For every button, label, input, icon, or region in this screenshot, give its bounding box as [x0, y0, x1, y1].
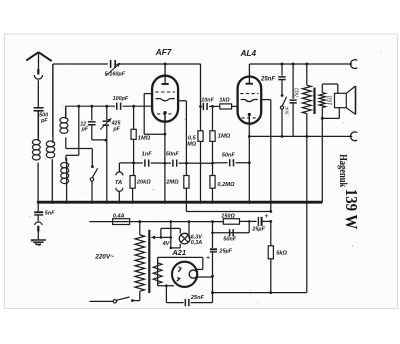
- antenna: [26, 52, 38, 60]
- svg-text:pF: pF: [81, 127, 89, 133]
- wire 25nF heater line: [165, 286, 167, 303]
- svg-text:+: +: [265, 213, 269, 220]
- AF7 grid dashes: [155, 91, 175, 93]
- svg-text:MΩ: MΩ: [187, 141, 197, 147]
- wire AL4 top cap: [248, 64, 250, 83]
- capacitor 50nF AF7: [165, 162, 171, 164]
- svg-text:5nF: 5nF: [45, 211, 55, 217]
- node TA ground: [118, 201, 121, 204]
- svg-text:A21: A21: [171, 248, 186, 257]
- wire 1k to AL4 grid: [232, 105, 238, 107]
- svg-text:Hagenuk: Hagenuk: [337, 154, 349, 187]
- scan noise specks: [136, 79, 137, 80]
- capacitor 5nF antenna: [34, 211, 43, 213]
- rectifier A21 loop left: [157, 257, 159, 285]
- coil L2: [46, 141, 54, 147]
- node antenna ground: [37, 201, 40, 204]
- coil L4: [61, 163, 69, 168]
- node lamp riser 1: [169, 220, 172, 223]
- node cathode ground: [163, 201, 166, 204]
- coil L3: [60, 118, 68, 123]
- svg-text:15Ω: 15Ω: [327, 96, 333, 106]
- svg-text:10nF: 10nF: [201, 98, 214, 104]
- resistor 1M AF7 grid: [131, 129, 136, 139]
- AF7 cathode pin: [164, 111, 167, 114]
- wire secondary bottom: [321, 108, 323, 119]
- wire rectifier cathode out: [197, 276, 213, 278]
- svg-text:25µF: 25µF: [218, 249, 232, 255]
- terminal hook top right: [350, 60, 357, 69]
- wire cathode to speaker terminal: [249, 135, 352, 137]
- resistor 150R: [223, 219, 239, 225]
- wire top bus right segment: [249, 63, 352, 65]
- svg-text:150Ω: 150Ω: [221, 214, 235, 220]
- svg-text:AL4: AL4: [240, 49, 257, 58]
- wire lamp riser 2: [188, 222, 190, 239]
- wire lamp riser 1: [170, 222, 172, 248]
- node coil4 riser: [77, 105, 80, 108]
- node AL4 grid 50nF: [211, 162, 214, 165]
- pilot lamp 6.3V 0.3A: [179, 228, 181, 233]
- svg-text:139 W: 139 W: [342, 189, 361, 230]
- wire secondary to ground bus: [321, 118, 323, 202]
- AF7 cathode: [156, 99, 175, 101]
- wire cathode column: [164, 113, 166, 203]
- node 1M column: [132, 105, 135, 108]
- svg-text:0,3A: 0,3A: [191, 240, 202, 246]
- svg-text:7kΩ: 7kΩ: [295, 88, 301, 98]
- resistor 1M AL4: [210, 131, 215, 142]
- wire 12pF column: [91, 106, 93, 120]
- node 20k ground: [131, 201, 134, 204]
- svg-text:25µF: 25µF: [251, 227, 265, 233]
- svg-text:0,5: 0,5: [188, 135, 197, 141]
- svg-text:TA: TA: [115, 180, 122, 186]
- node grid loop cathode: [164, 133, 167, 136]
- svg-text:0,2MΩ: 0,2MΩ: [217, 182, 235, 188]
- svg-text:50nF: 50nF: [166, 152, 179, 158]
- node 0.2M ground: [211, 201, 214, 204]
- svg-text:2MΩ: 2MΩ: [165, 179, 179, 185]
- wire mains lead 1: [89, 221, 112, 223]
- wire rectifier column: [212, 222, 214, 248]
- node L4 ground: [65, 201, 68, 204]
- node secondary bottom: [321, 117, 324, 120]
- wire AL4 1M column: [212, 106, 214, 130]
- svg-text:25nF: 25nF: [260, 77, 275, 83]
- antenna coil L1: [32, 140, 40, 145]
- capacitor 100pF: [116, 103, 118, 110]
- node 425pF column: [105, 105, 108, 108]
- speaker cone: [355, 86, 357, 114]
- svg-text:1MΩ: 1MΩ: [218, 134, 231, 140]
- svg-text:pF: pF: [40, 118, 48, 124]
- speaker voice coil box: [335, 93, 347, 107]
- node 10nF 1k: [211, 105, 214, 108]
- wire 25nF column: [281, 64, 283, 76]
- wire 5nF column: [292, 64, 294, 99]
- transformer T2 core: [313, 88, 315, 114]
- svg-text:AF7: AF7: [155, 48, 172, 57]
- wire AF7 top cap: [164, 64, 166, 83]
- wire AL4 anode: [261, 99, 271, 101]
- wire 50nF psu: [213, 232, 250, 234]
- capacitor 25nF bottom: [184, 299, 186, 306]
- node rectifier column: [211, 220, 214, 223]
- capacitor 50nF AL4 cathode: [213, 162, 228, 164]
- svg-text:220V~: 220V~: [94, 254, 114, 261]
- wire grid bus: [66, 105, 115, 107]
- svg-text:pF: pF: [112, 126, 120, 132]
- terminal hook lower right: [350, 132, 357, 141]
- heater winding 4V: [157, 257, 159, 262]
- node 1nF left: [132, 162, 135, 165]
- wire bias bus: [186, 211, 270, 213]
- node AL4 cathode ground: [248, 201, 251, 204]
- node 12pF joins 425pF: [105, 139, 108, 142]
- node rectifier out: [211, 275, 214, 278]
- lamp loop top: [161, 227, 180, 229]
- svg-text:5nF: 5nF: [285, 105, 290, 114]
- svg-text:1kΩ: 1kΩ: [219, 98, 230, 104]
- earth plug: [35, 222, 43, 225]
- node AF7 top cap on bus: [164, 63, 167, 66]
- wire coil4 riser: [78, 106, 80, 155]
- svg-text:5kΩ: 5kΩ: [276, 251, 287, 257]
- switch S2 tone: [281, 94, 284, 97]
- variable capacitor 5-160pF: [110, 60, 112, 68]
- svg-text:100pF: 100pF: [113, 96, 129, 102]
- node AL4 cathode wire: [248, 135, 251, 138]
- fuse 0.4A: [113, 219, 130, 225]
- AL4 bottom dashes: [242, 117, 258, 119]
- node 25nF column: [281, 63, 284, 66]
- wire TA stub: [119, 162, 133, 164]
- resistor 1k: [213, 105, 220, 107]
- tube AL4 envelope: [238, 77, 262, 124]
- svg-text:20kΩ: 20kΩ: [136, 179, 151, 185]
- wire AL4 cathode down: [248, 115, 250, 203]
- rectifier tube A21: [172, 262, 197, 287]
- terminal TA upper: [116, 172, 123, 176]
- wire 1nF: [134, 162, 143, 164]
- resistor 5k: [270, 221, 272, 245]
- resistor 0.2M: [210, 176, 215, 189]
- AF7 top cap bar: [162, 83, 169, 85]
- transformer T1 primary: [139, 222, 141, 235]
- node 5nF column: [292, 63, 295, 66]
- node switch ground: [91, 201, 94, 204]
- transformer T1 core: [148, 230, 150, 293]
- capacitor 25uF electrolytic 1: [257, 217, 259, 226]
- node 425pF ground: [105, 201, 108, 204]
- wire AF7 grid loop: [144, 93, 152, 95]
- trimmer capacitor 425pF: [103, 120, 109, 122]
- resistor 20k: [130, 176, 135, 189]
- node 7k bottom: [305, 135, 308, 138]
- AL4 cathode pin: [248, 113, 251, 116]
- wire B+ column: [200, 64, 202, 131]
- node transformer primary top: [138, 220, 141, 223]
- tap arrow 4V: [151, 236, 162, 238]
- wire top bus left segment: [53, 63, 108, 65]
- node bias bus end: [269, 210, 272, 213]
- antenna plug: [37, 69, 39, 75]
- wire down from top bus to L2: [52, 64, 54, 137]
- capacitor 10nF: [201, 105, 202, 107]
- wire 425pF column: [106, 106, 108, 120]
- node bottom bus start: [211, 291, 214, 294]
- node 5k bottom bus: [269, 291, 272, 294]
- wire antenna earth drop: [37, 202, 39, 211]
- capacitor 5nF: [290, 99, 297, 101]
- wire AF7 anode: [178, 100, 186, 102]
- ground symbol: [31, 239, 46, 241]
- node anode 50nF: [185, 162, 188, 165]
- bottom bus: [213, 292, 307, 294]
- AF7 bottom dashes: [157, 113, 173, 115]
- node 12pF column: [90, 105, 93, 108]
- capacitor 12pF: [88, 121, 96, 123]
- ground bus: [37, 201, 322, 204]
- tube AF7 envelope: [152, 76, 178, 122]
- resistor 0.5M: [198, 131, 203, 142]
- capacitor 50nF psu: [229, 229, 231, 236]
- node cathode 1nF: [163, 162, 166, 165]
- svg-text:1MΩ: 1MΩ: [138, 136, 151, 142]
- svg-text:25nF: 25nF: [190, 295, 205, 301]
- capacitor 25nF anode: [278, 76, 285, 78]
- switch S1 waveband: [91, 165, 94, 168]
- switch S3 mains: [133, 300, 140, 302]
- capacitor 25uF electrolytic 2: [210, 248, 217, 250]
- capacitor 500pF: [34, 107, 44, 109]
- node 25uF 5k: [269, 220, 272, 223]
- wire secondary top loop: [321, 84, 323, 93]
- wire 1M column: [133, 106, 135, 129]
- svg-text:50nF: 50nF: [223, 237, 236, 243]
- svg-text:+: +: [206, 255, 210, 262]
- node 0.5M ground: [199, 201, 202, 204]
- transformer T2 secondary: [319, 93, 325, 108]
- node 50nF AL4 cathode: [248, 161, 251, 164]
- AL4 cathode: [241, 100, 258, 102]
- node lamp riser 2: [188, 220, 191, 223]
- wire L3 bottom to switch: [65, 137, 67, 148]
- node 10nF tap: [199, 105, 202, 108]
- svg-text:1nF: 1nF: [142, 151, 152, 157]
- node 7k column: [305, 63, 308, 66]
- svg-text:0,4A: 0,4A: [113, 213, 125, 219]
- wire 2M to bias bus: [185, 188, 187, 211]
- svg-text:50nF: 50nF: [222, 153, 235, 159]
- rectifier A21 loop right: [158, 256, 203, 258]
- node L2 ground: [51, 201, 54, 204]
- node switch bottom: [281, 135, 284, 138]
- terminal TA lower: [116, 188, 123, 192]
- resistor 2M: [184, 176, 189, 189]
- AL4 top cap bar: [246, 83, 253, 85]
- svg-text:5-160pF: 5-160pF: [105, 71, 126, 77]
- svg-text:4V: 4V: [162, 241, 171, 247]
- resistor 7k: [306, 64, 308, 85]
- AL4 grid dashes: [240, 93, 258, 95]
- node heater bottom: [165, 284, 168, 287]
- capacitor 1nF: [144, 159, 146, 166]
